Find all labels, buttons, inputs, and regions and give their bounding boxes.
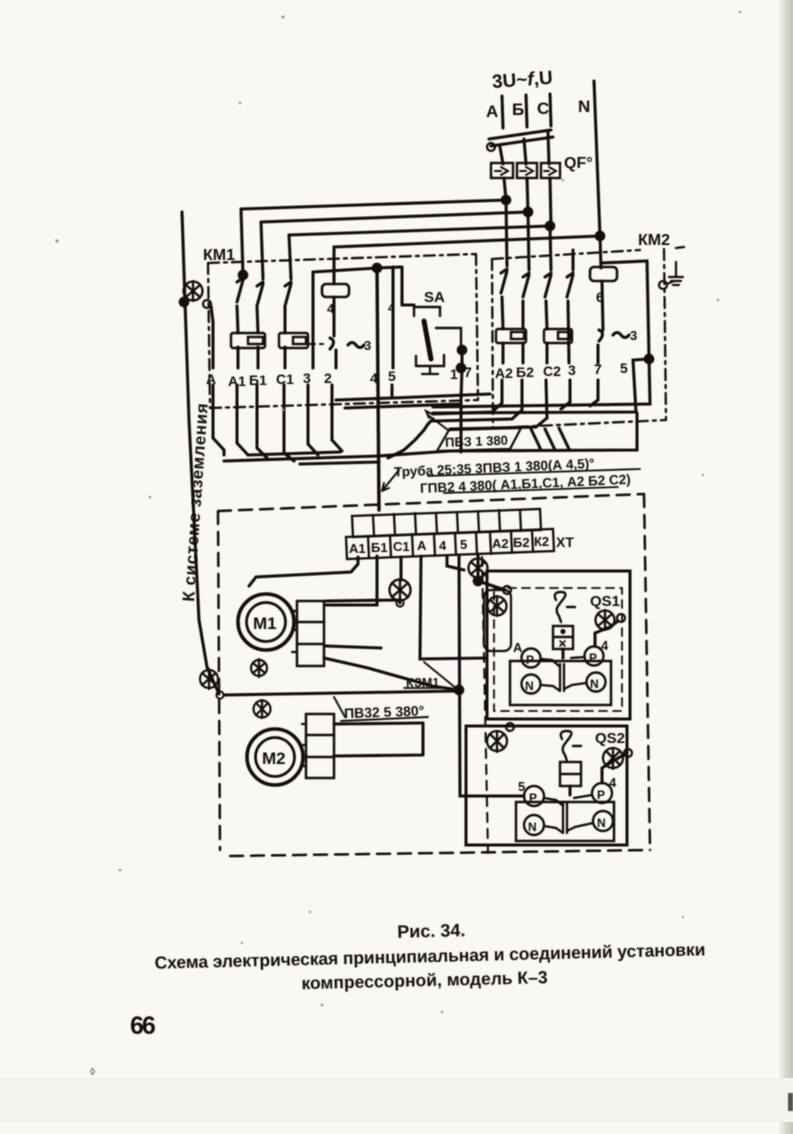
wire 4 column (cable main) bbox=[377, 268, 379, 510]
wire B1 column bbox=[257, 306, 258, 448]
svg-text:Р: Р bbox=[589, 651, 597, 665]
svg-text:А2: А2 bbox=[495, 365, 513, 381]
svg-text:А1: А1 bbox=[228, 373, 246, 389]
node tap to wire A bbox=[203, 300, 211, 308]
wire phase B to bus bbox=[527, 178, 528, 212]
ground symbol on left bus bbox=[184, 281, 203, 301]
breaker QF pole 3 bbox=[541, 163, 560, 178]
ground symbol at M2 bbox=[254, 700, 271, 718]
ground symbol in QS1 bbox=[488, 596, 507, 616]
wire M2 lower bbox=[334, 723, 423, 756]
svg-text:SA: SA bbox=[424, 289, 445, 306]
ground symbol at M1 bbox=[251, 659, 267, 677]
svg-text:C: C bbox=[537, 99, 549, 118]
wire 3 column bbox=[308, 272, 313, 444]
wire M2 upper bbox=[334, 723, 423, 724]
svg-text:5: 5 bbox=[388, 368, 396, 384]
breaker QF pole 1 bbox=[491, 163, 513, 178]
node center tap bbox=[373, 264, 381, 272]
svg-text:QS1: QS1 bbox=[590, 593, 620, 610]
terminal box M2 bbox=[306, 714, 334, 778]
wire coil KM1 bottom bbox=[332, 297, 336, 440]
svg-text:3: 3 bbox=[568, 362, 576, 378]
wire 5 column bbox=[392, 267, 393, 398]
svg-text:М2: М2 bbox=[262, 749, 286, 768]
wire XT A1 to motor M1 bbox=[249, 557, 358, 586]
svg-text:А2: А2 bbox=[492, 536, 509, 551]
svg-text:3: 3 bbox=[630, 328, 637, 343]
wire A column bbox=[211, 322, 214, 438]
wire N into KM2 coil bbox=[600, 236, 601, 268]
wire A drop to breaker bbox=[500, 147, 503, 164]
svg-text:А1: А1 bbox=[349, 541, 366, 556]
ground symbol above QS1 bbox=[469, 558, 488, 578]
wire run under KM1 to KM2 (upper) bbox=[336, 394, 490, 400]
contact P left QS1 bbox=[522, 649, 541, 668]
wire 7 (KM2) column bbox=[596, 345, 599, 400]
wire XT C1 ground tap bbox=[399, 557, 402, 580]
wire drop to KM1 coil bbox=[332, 247, 335, 284]
contact N left QS2 bbox=[524, 815, 544, 835]
wire phase B into KM2 bbox=[528, 212, 529, 270]
svg-text:1: 1 bbox=[450, 366, 458, 382]
svg-text:3: 3 bbox=[303, 370, 311, 386]
svg-text:С1: С1 bbox=[393, 539, 410, 554]
inner box QS2 bbox=[516, 802, 614, 841]
QS1 contact bridge bbox=[541, 657, 586, 691]
svg-text:4: 4 bbox=[439, 538, 447, 553]
capsule QS1 bbox=[553, 626, 573, 649]
contact P right QS2 bbox=[592, 783, 612, 803]
wire phase C to bus bbox=[550, 178, 551, 226]
thermal element KM2-1 bbox=[496, 329, 526, 343]
terminal strip XT upper row bbox=[352, 509, 541, 537]
svg-text:5: 5 bbox=[620, 360, 628, 376]
harness bus bottom KM2 bbox=[450, 413, 637, 451]
ground symbol in QS2 bbox=[487, 731, 507, 752]
thermal element KM1-1 bbox=[231, 333, 265, 348]
breaker QF pole 2 bbox=[517, 163, 537, 178]
stub M1 leads bbox=[292, 611, 297, 652]
svg-text:7: 7 bbox=[464, 364, 472, 380]
wire C2 column bbox=[546, 301, 547, 418]
svg-text:А: А bbox=[206, 371, 216, 387]
svg-text:5: 5 bbox=[460, 537, 467, 552]
wire N vertical bbox=[594, 81, 600, 236]
KM1 main contact A bbox=[237, 278, 243, 302]
node circle on QS2 top bbox=[506, 723, 514, 731]
ground symbol under QS1 label bbox=[596, 610, 615, 630]
motor M2 bbox=[247, 729, 303, 785]
svg-text:Б1: Б1 bbox=[249, 372, 267, 388]
ground symbol under QS2 label bbox=[603, 748, 623, 769]
svg-text:М1: М1 bbox=[253, 614, 277, 633]
wire center link bbox=[313, 267, 402, 272]
svg-text:А: А bbox=[513, 640, 523, 655]
wire M1 box mid lead bbox=[326, 646, 381, 648]
wire XT 5 long drop to QS2 bbox=[459, 555, 524, 796]
disconnect QF tie-bar bbox=[489, 130, 551, 139]
svg-text:QS2: QS2 bbox=[595, 730, 625, 747]
leader arrow to cable bbox=[382, 470, 399, 491]
svg-text:Б: Б bbox=[512, 100, 524, 119]
svg-text:А: А bbox=[417, 538, 427, 553]
svg-text:N: N bbox=[528, 820, 537, 834]
caption Рис. 34. bbox=[154, 914, 706, 996]
harness chevrons bbox=[531, 428, 569, 450]
wire C1 column bbox=[284, 306, 285, 453]
svg-text:Б2: Б2 bbox=[516, 364, 534, 380]
svg-text:ХТ: ХТ bbox=[556, 534, 574, 550]
svg-text:4: 4 bbox=[388, 301, 395, 315]
compartment wire bbox=[224, 691, 459, 695]
pressure switch QS1 box bbox=[487, 571, 630, 719]
bus line A bbox=[241, 200, 506, 209]
wire M1 bottom to KZM1 bbox=[324, 658, 459, 690]
aux contact 3 (KM2) bbox=[599, 330, 629, 341]
KM1 terminal labels bbox=[206, 364, 472, 389]
coil KM1 bbox=[322, 284, 349, 297]
wire phase C into KM2 bbox=[550, 226, 551, 270]
svg-text:4: 4 bbox=[601, 638, 609, 653]
KM2 main contact C2 bbox=[545, 273, 551, 297]
wire B drop to breaker bbox=[524, 139, 526, 164]
svg-text:Р: Р bbox=[597, 788, 605, 802]
svg-text:5: 5 bbox=[518, 779, 525, 794]
wire phase A into KM2 bbox=[506, 200, 507, 266]
contactor KM1 enclosure (dash-dot) bbox=[208, 254, 478, 408]
svg-text:Рис. 34.: Рис. 34. bbox=[397, 920, 466, 942]
harness staircase from KM2 bbox=[433, 400, 598, 429]
svg-text:КМ1: КМ1 bbox=[203, 247, 235, 264]
coil KM2 bbox=[590, 267, 617, 281]
pressure sensing element QS1 bbox=[555, 592, 566, 622]
KM1 main contact B bbox=[257, 282, 263, 306]
svg-text:N: N bbox=[578, 97, 590, 116]
harness staircase from KM1 bbox=[213, 438, 342, 461]
svg-text:4: 4 bbox=[609, 775, 617, 790]
svg-text:◊: ◊ bbox=[90, 1067, 95, 1078]
svg-text:3U~f,U: 3U~f,U bbox=[491, 68, 553, 93]
wire terminal 5 KM2 bbox=[433, 359, 649, 413]
wire SA right down bbox=[461, 350, 462, 400]
wire XT B1 to M1 box bbox=[326, 556, 377, 605]
svg-text:КМ2: КМ2 bbox=[638, 232, 670, 249]
svg-text:Б1: Б1 bbox=[371, 540, 388, 555]
svg-text:2: 2 bbox=[324, 370, 332, 386]
earth symbol right of KM2 bbox=[659, 262, 683, 289]
contact N right QS2 bbox=[593, 811, 613, 831]
svg-text:QF°: QF° bbox=[564, 155, 593, 172]
motor M1 bbox=[238, 594, 294, 650]
cable tag ПВЗ 1 380 bbox=[437, 428, 521, 451]
wire coil KM2 bottom bbox=[602, 281, 603, 330]
wire B2 column bbox=[522, 301, 523, 410]
aux contact 3 (KM1) bbox=[309, 343, 323, 345]
svg-text:A: A bbox=[486, 102, 498, 121]
contact P right QS1 bbox=[585, 647, 604, 666]
bus line C bbox=[289, 226, 550, 235]
svg-text:N: N bbox=[590, 677, 599, 691]
contactor KM2 enclosure (dash-dot) bbox=[492, 247, 684, 428]
KM2 terminal labels bbox=[495, 360, 628, 381]
terminal box M1 bbox=[297, 601, 324, 666]
wire XT 4 stub bbox=[447, 556, 464, 570]
KM2 aux contact 7 bbox=[567, 273, 573, 297]
inner box QS1 bbox=[510, 661, 611, 705]
svg-text:4: 4 bbox=[370, 370, 378, 386]
node on compartment wire bbox=[216, 691, 223, 698]
thermal element KM1-2 bbox=[279, 333, 308, 348]
ground bus wire (left vertical) bbox=[182, 212, 219, 694]
wire drop to KM1 contact A bbox=[241, 209, 243, 275]
harness bus lines KM1 side bbox=[224, 456, 379, 461]
unit enclosure (dashed) bbox=[218, 494, 650, 856]
wire drop to KM1 contact B bbox=[261, 222, 263, 279]
QS2 contact bridge bbox=[544, 795, 593, 833]
stub M2 leads bbox=[301, 724, 306, 766]
wire A2 column bbox=[502, 297, 503, 403]
wire phase A to bus bbox=[504, 178, 506, 200]
bus line N bbox=[334, 236, 600, 247]
svg-text:66: 66 bbox=[130, 1012, 155, 1040]
wire XT A drop to QS1 bbox=[420, 556, 487, 659]
KM1 main contact C bbox=[285, 282, 291, 306]
wire A1 column bbox=[237, 306, 238, 443]
capsule QS2 bbox=[560, 762, 581, 786]
contact N left QS1 bbox=[522, 675, 541, 694]
wire QS2 P4 up bbox=[602, 754, 626, 783]
contact P left QS2 bbox=[524, 786, 544, 806]
ground symbol left wall bbox=[200, 669, 218, 689]
terminal strip XT lower row bbox=[346, 529, 554, 559]
KM2 main contact B2 bbox=[523, 273, 529, 297]
wire PE to M1 box bbox=[326, 600, 400, 603]
wire C drop to breaker bbox=[548, 132, 549, 164]
wire 3 (KM2) column bbox=[568, 301, 570, 402]
KM2 main contact A2 bbox=[501, 269, 507, 293]
thermal element KM2-2 bbox=[544, 329, 572, 343]
ground symbol under XT (M1 PE) bbox=[390, 579, 411, 601]
wire XT A2 PE drop bbox=[478, 554, 505, 590]
XT cell labels bbox=[349, 534, 549, 556]
wire drop to KM1 contact C bbox=[289, 235, 291, 279]
svg-text:С1: С1 bbox=[276, 371, 294, 387]
scan specks bbox=[55, 11, 741, 1013]
inner dashed partition bbox=[482, 557, 488, 853]
svg-text:N: N bbox=[597, 816, 606, 830]
contact N right QS1 bbox=[587, 673, 606, 692]
svg-text:ПВЗ 1 380: ПВЗ 1 380 bbox=[445, 433, 508, 450]
pressure sensing element QS2 bbox=[561, 731, 572, 761]
bus line B bbox=[261, 212, 528, 222]
svg-text:С2: С2 bbox=[543, 363, 561, 379]
svg-text:Б2: Б2 bbox=[513, 535, 530, 550]
pressure switch QS2 box bbox=[466, 726, 627, 845]
node circle on QS1 top bbox=[503, 586, 511, 594]
svg-text:К2: К2 bbox=[534, 534, 549, 549]
wire QS1 P4 up bbox=[595, 621, 618, 646]
svg-text:3: 3 bbox=[364, 338, 371, 353]
wire KM2 right loop bbox=[433, 261, 650, 407]
harness bus to KM2 side bbox=[379, 451, 450, 456]
svg-text:N: N bbox=[525, 679, 534, 693]
